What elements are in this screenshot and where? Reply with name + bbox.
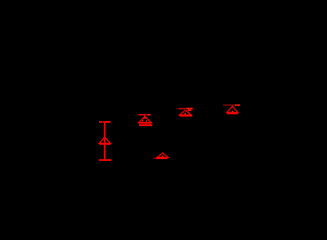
cathode bar of D3 <box>180 115 193 117</box>
pin stub below line of D2 <box>144 116 145 117</box>
artifact dot inside D5 <box>162 156 163 157</box>
wire bottom terminal bar of D1 <box>99 159 111 161</box>
diode D1 <box>99 121 111 161</box>
apex cap of D2 <box>143 116 147 118</box>
wire bottom bar of D2 <box>139 124 152 126</box>
diode D3 <box>177 108 194 117</box>
wire top line of D2 <box>137 114 150 115</box>
artifact dot inside D3 <box>185 113 186 114</box>
wire vertical stem of D1 <box>104 123 105 160</box>
triangle (anode) of D5 <box>157 153 168 157</box>
triangle (anode) of D4 <box>227 106 238 112</box>
wire left stub of D5 <box>153 158 156 159</box>
triangle (anode) of D2 <box>139 117 152 123</box>
diode D2 <box>137 113 152 126</box>
wire top line of D3 <box>177 108 194 109</box>
cathode bar of D2 <box>139 122 152 124</box>
label blob of D3 <box>188 110 191 112</box>
pin stub above D2 <box>144 113 145 114</box>
triangle (anode) of D3 <box>179 110 191 115</box>
wire top terminal bar of D1 <box>99 121 111 123</box>
cathode bar of D4 <box>227 113 238 115</box>
schematic background <box>0 0 327 191</box>
triangle (anode) of D1 <box>99 137 110 143</box>
wire top line of D4 <box>223 104 235 105</box>
cathode bar of D5 <box>156 157 167 159</box>
artifact dot inside D4 <box>232 111 233 112</box>
diode D5 <box>153 153 168 159</box>
artifact dots inside D2 <box>142 120 143 121</box>
cathode bar of D1 <box>99 143 110 145</box>
diode D4 <box>223 104 240 114</box>
